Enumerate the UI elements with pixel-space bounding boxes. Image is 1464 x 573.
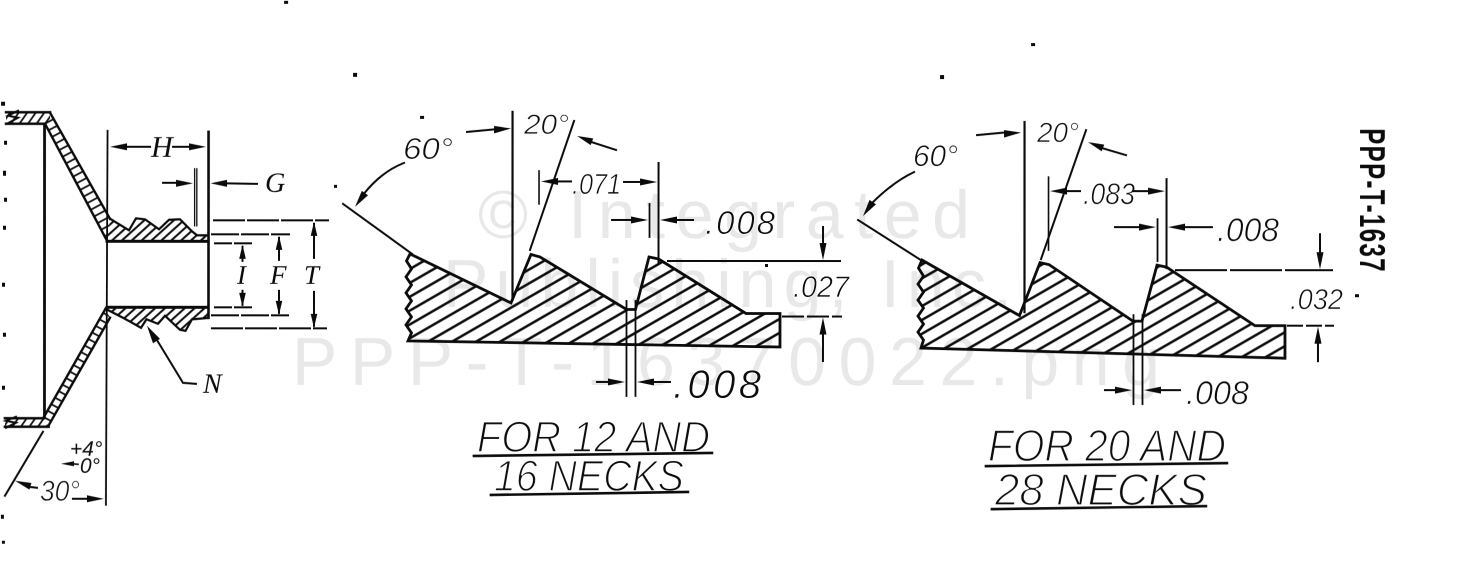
thread profile hatch (20-28 necks)	[918, 260, 1285, 358]
lower .008 left arrow	[597, 381, 610, 383]
lower .008 gauge lines (right)	[1132, 315, 1134, 404]
30 degree reference line	[5, 432, 43, 496]
60 degree leader right arrow	[494, 126, 511, 134]
dimension H line left arrow	[110, 143, 127, 150]
neck end plane line	[207, 132, 210, 318]
neck inner top surface	[107, 240, 208, 243]
funnel mouth plane line	[43, 125, 46, 418]
neck bottom thread profile	[105, 309, 208, 331]
neck top thread band hatch	[107, 218, 208, 241]
svg-text:0°: 0°	[80, 455, 100, 478]
svg-text:.071: .071	[572, 169, 621, 201]
thread profile outline (20-28 necks)	[918, 260, 1285, 358]
.027 bottom extension line	[783, 316, 841, 318]
dimension .071 right arrow	[624, 181, 641, 183]
60 degree reference line (right)	[858, 220, 924, 262]
top cone wall hatch	[45, 113, 110, 241]
svg-text:.008: .008	[705, 204, 776, 241]
caption underline 2	[491, 492, 688, 495]
.032 top extension line	[1176, 269, 1332, 271]
extension line T bottom	[212, 327, 326, 329]
dimension I arrows	[239, 245, 246, 259]
upper .008 left arrow (right)	[1115, 226, 1138, 228]
svg-text:T: T	[304, 260, 321, 290]
dimension line right vertical (right)	[1166, 179, 1168, 268]
dimension G tick lines	[194, 169, 196, 226]
lower .008 right arrow (right)	[1144, 387, 1161, 394]
30 degree right arrow	[73, 498, 88, 500]
60 degree leader right shaft (right)	[977, 133, 1004, 136]
extension line F top	[212, 233, 289, 235]
lower .008 gauge lines	[625, 301, 627, 396]
60 degree leader right arrow (right)	[1004, 130, 1021, 138]
svg-text:F: F	[269, 260, 287, 290]
svg-text:.008: .008	[1217, 211, 1280, 248]
60 degree leader bottom arrow (right)	[863, 200, 876, 216]
30 degree left arrow	[15, 481, 32, 490]
bottom flange hatch	[5, 419, 49, 427]
svg-text:20°: 20°	[1036, 117, 1079, 148]
bottom flange break mark	[6, 417, 16, 428]
dimension .071 left arrow	[541, 178, 558, 185]
thread profile outline (12-16 necks)	[406, 254, 780, 347]
.032 bottom extension line	[1288, 325, 1333, 327]
top flange hatch	[6, 113, 50, 124]
thread flank vertical line	[511, 112, 513, 300]
20 degree leader arrow	[577, 136, 593, 145]
top cone wall outer edge	[50, 113, 110, 219]
dimension G left arrow	[163, 182, 178, 184]
extension line I bottom	[215, 306, 253, 308]
svg-text:PPP-T-1637: PPP-T-1637	[1351, 128, 1392, 273]
dimension .071 tick	[538, 171, 540, 204]
.027 top extension line	[668, 260, 840, 262]
svg-text:H: H	[150, 131, 175, 164]
svg-text:G: G	[265, 168, 285, 199]
dimension .083 tick	[1048, 177, 1050, 250]
svg-text:.027: .027	[793, 271, 850, 304]
upper .008 right arrow (right)	[1168, 224, 1185, 231]
dimension H line right arrow	[173, 146, 190, 148]
dimension F arrows	[276, 236, 283, 250]
neck start extension line	[106, 131, 108, 505]
svg-text:30°: 30°	[40, 476, 80, 508]
.032 bottom arrow	[1314, 327, 1321, 344]
bottom cone wall hatch	[43, 309, 110, 426]
svg-text:20°: 20°	[523, 109, 569, 140]
.027 top arrow	[822, 227, 824, 244]
neck bottom thread band hatch	[105, 307, 208, 331]
60 degree leader left curve (right)	[872, 172, 914, 203]
tolerance arrow	[61, 461, 74, 466]
.032 top arrow	[1319, 234, 1321, 252]
caption underline 1	[474, 453, 712, 456]
dimension line right vertical	[658, 163, 660, 263]
top cone wall inner edge	[45, 124, 107, 241]
lower .008 left arrow (right)	[1105, 389, 1117, 391]
caption underline 2 (right)	[992, 506, 1206, 509]
upper .008 left arrow	[612, 219, 630, 221]
upper .008 right arrow	[660, 216, 677, 223]
dimension .083 left arrow	[1050, 188, 1067, 195]
20 degree leader arrow (right)	[1088, 142, 1104, 151]
20 degree reference line	[530, 121, 574, 250]
leader N line	[155, 337, 196, 384]
svg-text:60°: 60°	[913, 140, 958, 173]
extension line T top	[214, 219, 328, 221]
60 degree reference line	[343, 204, 412, 254]
.027 bottom arrow	[819, 318, 826, 335]
bottom flange outline	[5, 418, 49, 427]
thread profile hatch (12-16 necks)	[406, 254, 780, 347]
extension line I top	[215, 242, 252, 244]
top flange break mark	[7, 111, 18, 124]
60 degree leader left curve	[363, 163, 404, 195]
svg-text:.083: .083	[1083, 178, 1135, 211]
upper .008 tick (right)	[1157, 219, 1159, 261]
dimension .083 right arrow	[1133, 190, 1149, 192]
svg-text:.008: .008	[1186, 374, 1250, 411]
svg-text:.032: .032	[1290, 284, 1343, 316]
bottom cone wall inner edge	[43, 309, 105, 418]
neck inner bottom surface	[107, 306, 208, 309]
dimension T arrows	[311, 222, 318, 236]
bottom cone wall outer edge	[49, 318, 110, 426]
lower .008 right arrow	[637, 378, 654, 385]
extension line F bottom	[212, 314, 288, 316]
top flange outline	[6, 112, 50, 124]
upper .008 tick	[649, 204, 651, 237]
dimension G right arrow	[211, 180, 228, 187]
20 degree reference line (right)	[1041, 130, 1086, 259]
neck top thread profile	[110, 218, 208, 235]
leader N arrowhead	[147, 326, 160, 344]
thread flank vertical line (right)	[1023, 122, 1025, 312]
svg-text:N: N	[202, 369, 223, 400]
caption underline 1 (right)	[986, 463, 1227, 466]
60 degree leader right shaft	[467, 129, 494, 132]
svg-text:60°: 60°	[403, 133, 453, 166]
60 degree leader bottom arrow	[355, 191, 368, 207]
